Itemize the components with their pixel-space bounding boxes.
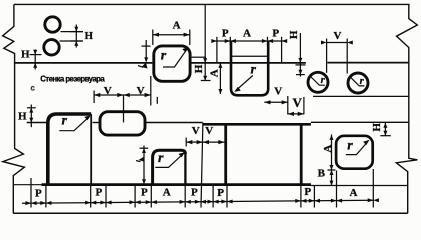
r label and leader in U: [234, 76, 253, 92]
svg-text:V: V: [104, 85, 112, 97]
small tick dimension left of square 1: [138, 40, 151, 69]
weld circle bottom-right 2: [348, 73, 368, 93]
V V dimension below wall (left): [94, 76, 151, 122]
weld circle top-left upper: [45, 17, 60, 32]
svg-text:V: V: [293, 95, 303, 110]
svg-text:Р: Р: [141, 186, 148, 198]
svg-text:Р: Р: [222, 28, 229, 40]
svg-text:Н: Н: [288, 30, 300, 39]
weld profile square 4: [336, 136, 373, 169]
wall top line: [14, 3, 410, 5]
svg-text:Н: Н: [85, 30, 94, 42]
height dimension left of shape 6: [136, 146, 148, 185]
big rectangle weld bath: [226, 123, 302, 186]
V dimension 4 at plate step: [288, 112, 304, 116]
H dimension right of P A P (rotated): [296, 33, 306, 77]
svg-text:r: r: [347, 139, 353, 154]
svg-text:V: V: [137, 85, 145, 97]
svg-text:В: В: [318, 167, 326, 179]
weld profile shape 6: [153, 150, 186, 184]
svg-text:А: А: [350, 187, 358, 199]
bottom band thick line 4: [42, 183, 312, 186]
svg-text:Р: Р: [272, 28, 279, 40]
A dimension left of square 4 (rotated): [328, 135, 336, 187]
svg-text:Р: Р: [35, 187, 42, 199]
svg-text:r: r: [158, 151, 164, 166]
svg-text:r: r: [62, 114, 68, 129]
svg-text:с: с: [31, 84, 36, 93]
svg-text:Р: Р: [96, 186, 103, 198]
svg-text:А: А: [173, 19, 181, 31]
r label and leader shape 5: [59, 115, 91, 131]
svg-text:Р: Р: [217, 187, 224, 199]
svg-text:А: А: [208, 69, 220, 77]
weld capsule profile: [100, 112, 145, 135]
plate edge line right (below circles): [313, 95, 409, 97]
extension below square 4: [336, 171, 338, 208]
svg-text:А: А: [322, 145, 334, 153]
bottom chain dimension line: [22, 178, 374, 208]
svg-text:V: V: [274, 85, 282, 97]
P A P dimension above U: [211, 37, 287, 45]
dimension H circle-to-wall-line: [30, 50, 42, 70]
tall weld profile shape 5: [48, 114, 91, 184]
reference line from lower circle: [60, 40, 84, 42]
weld circle top-left lower: [44, 40, 59, 55]
svg-text:А: А: [243, 28, 251, 40]
thick plate line over rectangle: [203, 123, 311, 126]
right broken edge: [396, 4, 417, 213]
left broken edge: [3, 4, 25, 213]
svg-text:Н: Н: [193, 64, 205, 73]
weld profile square 1: [154, 46, 190, 81]
depth dimension A left of U (rotated): [218, 63, 222, 94]
svg-text:Н: Н: [371, 123, 383, 132]
svg-text:V: V: [334, 30, 342, 42]
weld circle bottom-right 1: [308, 72, 328, 92]
dimension H left of shape 5: [27, 105, 36, 128]
chain arrows: [25, 198, 379, 205]
dimension H between circles: [71, 25, 83, 48]
U weld groove profile: [231, 42, 269, 96]
svg-text:Стенка резервуара: Стенка резервуара: [40, 75, 105, 84]
wall line 3 segments: [27, 122, 46, 124]
svg-text:Н: Н: [21, 49, 30, 61]
stub extension line: [156, 97, 158, 104]
reference line from upper circle: [61, 31, 84, 33]
wall line 2 segments: [14, 62, 153, 64]
r label and leader square 4: [346, 140, 370, 155]
H dimension above square 4 (rotated): [380, 123, 391, 136]
V dimension at U bottom right: [264, 96, 288, 115]
dimension H right of square 1: [192, 4, 211, 80]
svg-text:Р: Р: [191, 186, 198, 198]
bottom boundary line: [13, 212, 407, 214]
svg-text:А: А: [163, 186, 171, 198]
svg-text:r: r: [251, 62, 257, 77]
V dimension between circles (top right): [321, 39, 353, 74]
r label and leader square 1: [163, 47, 189, 67]
svg-text:Н: Н: [18, 111, 27, 123]
svg-text:V: V: [205, 125, 213, 137]
plate edge step vertical: [303, 97, 305, 114]
extension lines P A P to wall: [217, 45, 282, 62]
dimension A above square 1: [153, 30, 190, 46]
svg-text:r: r: [161, 49, 167, 64]
svg-text:Р: Р: [304, 186, 311, 198]
r label and leader shape 6: [155, 152, 185, 167]
svg-text:V: V: [192, 125, 200, 137]
